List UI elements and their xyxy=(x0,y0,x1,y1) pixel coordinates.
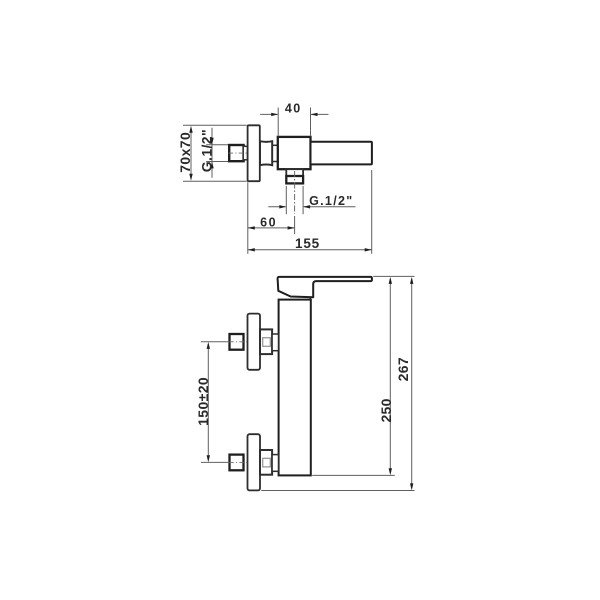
fitting stub xyxy=(243,146,247,160)
svg-text:267: 267 xyxy=(395,357,411,381)
dimension 60 xyxy=(248,216,295,230)
mixer body (front view) xyxy=(279,300,311,476)
escutcheon collar xyxy=(260,141,272,165)
extension line body left (40) xyxy=(277,108,279,137)
svg-text:155: 155 xyxy=(295,236,320,251)
extension line flange bottom (70x70) xyxy=(183,180,247,182)
svg-text:150±20: 150±20 xyxy=(195,377,211,426)
fitting centerline xyxy=(229,152,250,154)
upper wall flange xyxy=(248,314,261,370)
outlet centerline xyxy=(294,171,296,214)
lower mount centerline xyxy=(201,461,248,463)
upper mount centerline xyxy=(201,341,248,343)
extension line lever end (155) xyxy=(371,170,373,254)
handle lever (side view) xyxy=(311,142,372,165)
outlet upper section xyxy=(286,169,303,176)
dimension 150±20 xyxy=(195,342,211,462)
dimension 155 xyxy=(248,236,372,251)
lower neck xyxy=(272,455,278,472)
dimension 250 xyxy=(378,277,394,475)
upper connector inner square xyxy=(263,338,271,347)
outlet threaded collar xyxy=(286,176,303,183)
svg-text:G.1/2": G.1/2" xyxy=(309,194,353,208)
extension line flange bottom (267) xyxy=(261,490,414,492)
upper neck xyxy=(272,334,278,351)
leader and label G.1/2" (outlet thread) xyxy=(268,194,355,209)
svg-text:60: 60 xyxy=(260,216,277,230)
upper connector block xyxy=(260,329,272,354)
wall supply fitting nut xyxy=(229,145,243,161)
svg-text:250: 250 xyxy=(378,398,394,422)
extension line flange top (70x70) xyxy=(183,124,247,126)
lower connector block xyxy=(260,450,272,475)
upper mounting nut xyxy=(230,334,244,350)
collar neck xyxy=(272,145,277,161)
svg-text:G.1/2": G.1/2" xyxy=(198,129,214,172)
wall flange (side view) xyxy=(248,125,260,181)
lower connector inner square xyxy=(263,458,271,467)
dimension 267 xyxy=(395,277,414,491)
extension line wall face (60/155) xyxy=(247,182,249,254)
mixer body (side view) xyxy=(278,137,311,169)
extension line outlet center (60) xyxy=(294,216,296,234)
dimension 70x70 xyxy=(177,126,193,181)
lower mounting nut xyxy=(230,455,244,471)
handle lever (front view) xyxy=(278,277,372,297)
extension line body right (40) xyxy=(310,108,312,137)
dimension G.1/2" (wall fitting thread) xyxy=(198,128,228,178)
svg-text:70x70: 70x70 xyxy=(177,132,193,173)
extension line handle top (250/267) xyxy=(373,275,414,277)
extension line body bottom (250) xyxy=(312,474,395,476)
svg-text:40: 40 xyxy=(285,102,302,116)
extension line outlet right (G.1/2") xyxy=(302,186,304,214)
lower wall flange xyxy=(248,434,261,490)
extension line outlet left (G.1/2") xyxy=(285,186,287,214)
dimension 40 xyxy=(260,102,328,117)
handle/body joint edge xyxy=(309,297,311,299)
